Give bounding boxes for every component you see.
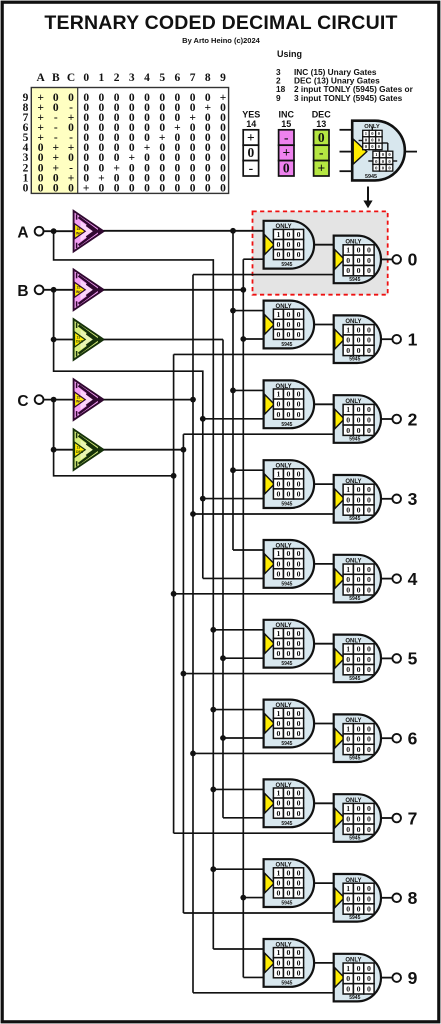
wire U4b output xyxy=(381,578,393,580)
svg-text:+: + xyxy=(282,145,290,160)
svg-text:0: 0 xyxy=(83,72,89,84)
svg-text:Using: Using xyxy=(277,49,302,59)
wire net B bypass xyxy=(54,340,266,579)
output terminal 5 xyxy=(392,654,401,663)
svg-text:3: 3 xyxy=(408,489,418,509)
svg-text:2: 2 xyxy=(408,409,418,429)
svg-text:1: 1 xyxy=(408,330,418,350)
svg-text:B: B xyxy=(17,283,28,300)
unary gate DEC-C (13) xyxy=(74,429,104,470)
wire net C bypass xyxy=(54,354,336,833)
svg-text:-: - xyxy=(284,130,289,145)
TONLY gate U2a (5945) xyxy=(264,380,315,428)
wire U0b output xyxy=(381,258,393,260)
svg-text:TERNARY CODED DECIMAL CIRCUIT: TERNARY CODED DECIMAL CIRCUIT xyxy=(44,12,397,34)
TONLY gate U7a (5945) xyxy=(264,779,315,827)
wire C down to DEC-C xyxy=(54,400,74,450)
wire U1b output xyxy=(381,338,393,340)
svg-text:DEC: DEC xyxy=(312,109,332,119)
unary gate INC-B (15) xyxy=(74,270,104,311)
svg-text:8: 8 xyxy=(205,72,211,84)
unary gate INC-C (15) xyxy=(74,379,104,420)
wire C terminal to INC-C xyxy=(43,399,74,401)
wire U9b output xyxy=(381,977,393,979)
wire U9a output to U9b xyxy=(314,962,336,964)
wire U6b output xyxy=(381,737,393,739)
wire net INC-C xyxy=(104,275,336,993)
svg-text:B: B xyxy=(52,72,60,84)
unary gate DEC-B (13) xyxy=(74,319,104,360)
svg-text:4: 4 xyxy=(408,569,418,589)
TONLY gate U6a (5945) xyxy=(264,700,315,748)
unary gate INC-A (15) xyxy=(74,211,104,252)
wire U4a output to U4b xyxy=(314,563,336,565)
wire U8a output to U8b xyxy=(314,882,336,884)
TONLY gate U8b (5945) xyxy=(334,874,381,922)
svg-text:-: - xyxy=(319,145,324,160)
input B label and terminal xyxy=(17,283,43,300)
junction B-DEC xyxy=(51,337,57,343)
svg-text:0: 0 xyxy=(408,250,418,270)
svg-text:C: C xyxy=(17,393,28,410)
wire B down to DEC-B xyxy=(54,290,74,340)
wire net DEC-B xyxy=(104,340,266,818)
output terminal 3 xyxy=(392,495,401,504)
svg-text:4: 4 xyxy=(144,72,150,84)
junction A xyxy=(51,228,57,234)
arrow to example gate pair xyxy=(363,187,372,209)
TONLY gate U4a (5945) xyxy=(264,540,315,588)
svg-text:5: 5 xyxy=(159,72,165,84)
svg-text:YES: YES xyxy=(242,109,260,119)
TONLY gate U6b (5945) xyxy=(334,714,381,762)
TONLY gate U4b (5945) xyxy=(334,555,381,603)
wire U7b output xyxy=(381,817,393,819)
svg-text:9: 9 xyxy=(408,968,418,988)
svg-text:3 input TONLY (5945) Gates: 3 input TONLY (5945) Gates xyxy=(294,93,403,103)
svg-text:+: + xyxy=(247,130,255,145)
svg-text:By Arto Heino (c)2024: By Arto Heino (c)2024 xyxy=(182,36,260,45)
TONLY gate U8a (5945) xyxy=(264,859,315,907)
wire U5b output xyxy=(381,657,393,659)
output terminal 9 xyxy=(392,973,401,982)
TONLY gate U9b (5945) xyxy=(334,954,381,1002)
wire net A bypass xyxy=(54,231,266,949)
TONLY gate U9a (5945) xyxy=(264,939,315,987)
wire U3b output xyxy=(381,498,393,500)
input C label and terminal xyxy=(17,393,43,410)
TONLY gate U5a (5945) xyxy=(264,620,315,668)
svg-text:A: A xyxy=(17,225,28,242)
svg-text:INC: INC xyxy=(278,109,294,119)
TONLY gate U0b (5945) xyxy=(334,236,381,284)
svg-text:8: 8 xyxy=(408,888,418,908)
svg-text:5: 5 xyxy=(408,649,418,669)
output terminal 0 xyxy=(392,255,401,264)
wire net INC-B xyxy=(104,259,266,977)
TONLY gate U0a (5945) xyxy=(264,221,315,269)
wire U6a output to U6b xyxy=(314,723,336,725)
svg-text:0: 0 xyxy=(283,161,290,176)
svg-text:-: - xyxy=(249,161,254,176)
highlight box around digit-0 gates xyxy=(253,211,388,294)
TONLY gate U1b (5945) xyxy=(334,315,381,363)
svg-text:2: 2 xyxy=(114,72,120,84)
parts list text xyxy=(276,49,414,103)
wire U5a output to U5b xyxy=(314,643,336,645)
output terminal 7 xyxy=(392,814,401,823)
svg-text:0: 0 xyxy=(318,130,325,145)
legend YES 14 xyxy=(242,109,260,176)
svg-text:0: 0 xyxy=(23,182,29,194)
svg-text:9: 9 xyxy=(220,72,226,84)
wire net DEC-C xyxy=(104,434,336,913)
legend DEC 13 xyxy=(312,109,332,176)
wire B terminal to INC-B xyxy=(43,289,74,291)
svg-text:9: 9 xyxy=(276,93,281,103)
legend TONLY 5945 gate symbol xyxy=(340,121,418,181)
wire U1a output to U1b xyxy=(314,324,336,326)
wire U7a output to U7b xyxy=(314,802,336,804)
svg-text:6: 6 xyxy=(175,72,181,84)
svg-text:0: 0 xyxy=(248,145,255,160)
svg-text:14: 14 xyxy=(246,119,256,129)
truth table xyxy=(23,72,229,194)
TONLY gate U2b (5945) xyxy=(334,395,381,443)
svg-text:13: 13 xyxy=(316,119,326,129)
junction C-DEC xyxy=(51,447,57,453)
svg-text:1: 1 xyxy=(99,72,105,84)
output terminal 6 xyxy=(392,734,401,743)
svg-text:A: A xyxy=(36,72,45,84)
svg-text:3: 3 xyxy=(129,72,135,84)
output terminal 1 xyxy=(392,335,401,344)
TONLY gate U3a (5945) xyxy=(264,460,315,508)
wire U0a output to U0b xyxy=(314,244,336,246)
svg-text:C: C xyxy=(67,72,75,84)
junction C xyxy=(51,397,57,403)
wire U3a output to U3b xyxy=(314,483,336,485)
legend INC 15 xyxy=(278,109,294,176)
svg-text:+: + xyxy=(317,161,325,176)
wire A terminal to INC-A xyxy=(43,230,74,232)
wire U2b output xyxy=(381,418,393,420)
svg-text:7: 7 xyxy=(408,808,418,828)
TONLY gate U1a (5945) xyxy=(264,301,315,349)
svg-text:15: 15 xyxy=(281,119,291,129)
wire U2a output to U2b xyxy=(314,403,336,405)
wire U8b output xyxy=(381,897,393,899)
svg-text:7: 7 xyxy=(190,72,196,84)
svg-text:6: 6 xyxy=(408,729,418,749)
input A label and terminal xyxy=(17,225,43,242)
output terminal 2 xyxy=(392,415,401,424)
output terminal 4 xyxy=(392,574,401,583)
svg-text:5945: 5945 xyxy=(365,174,377,180)
TONLY gate U5b (5945) xyxy=(334,635,381,683)
TONLY gate U7b (5945) xyxy=(334,794,381,842)
junction B xyxy=(51,287,57,293)
output terminal 8 xyxy=(392,894,401,903)
wire net INC-A xyxy=(104,228,266,550)
TONLY gate U3b (5945) xyxy=(334,475,381,523)
